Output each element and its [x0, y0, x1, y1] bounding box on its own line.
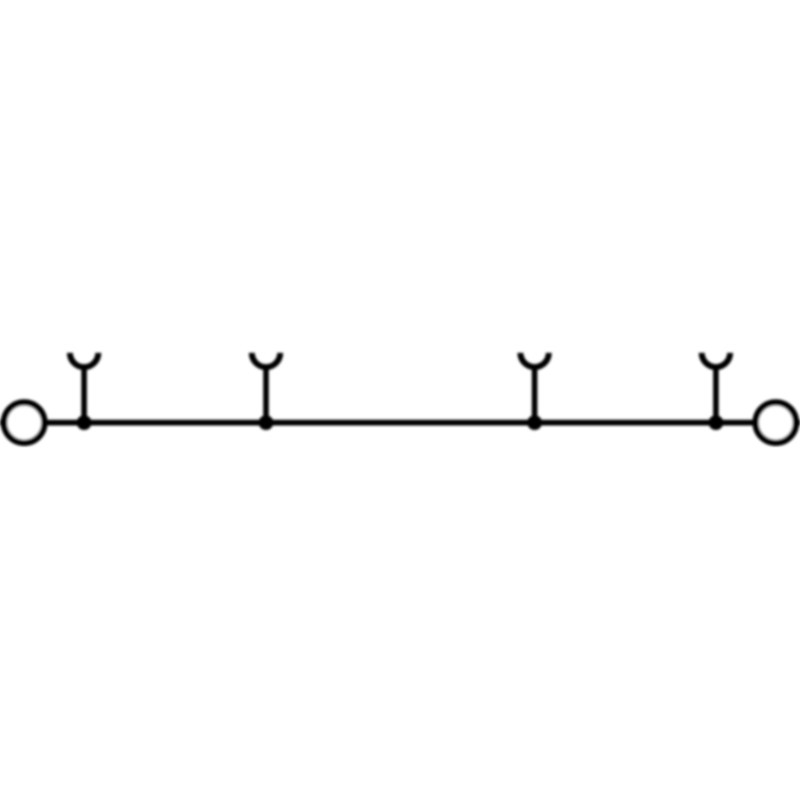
clamp contact 1 stem: [81, 365, 87, 423]
junction dot 1: [77, 415, 92, 430]
clamp contact 2 arc: [252, 353, 280, 367]
wire: horizontal bus: [0, 420, 800, 426]
clamp contact 4 arc: [702, 353, 730, 367]
terminal circle left: [4, 402, 44, 442]
junction dot 3: [527, 415, 542, 430]
junction dot 4: [709, 415, 724, 430]
clamp contact 3 stem: [532, 365, 538, 423]
clamp contact 4 stem: [713, 365, 719, 423]
clamp contact 2 stem: [263, 365, 269, 423]
clamp contact 3 arc: [520, 353, 548, 367]
clamp contact 1 arc: [70, 353, 98, 367]
terminal circle right: [756, 402, 796, 442]
junction dot 2: [259, 415, 274, 430]
